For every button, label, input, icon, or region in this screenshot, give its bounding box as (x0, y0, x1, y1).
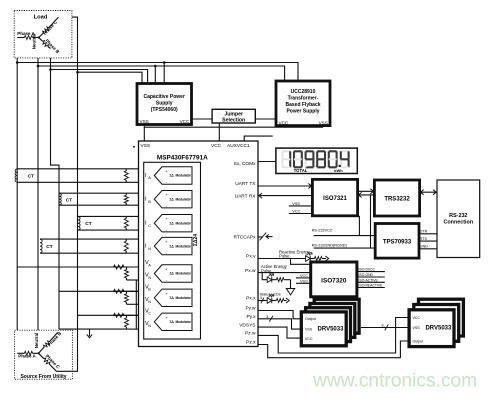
svg-text:Jumper: Jumper (224, 111, 243, 117)
svg-text:(TPS54060): (TPS54060) (151, 107, 178, 113)
svg-text:Modulator: Modulator (176, 197, 192, 201)
svg-text:CT: CT (28, 173, 34, 179)
svg-text:N: N (148, 246, 151, 251)
svg-text:6: 6 (260, 296, 262, 300)
svg-text:RS-232VCC: RS-232VCC (312, 228, 333, 232)
svg-text:VSS: VSS (305, 327, 313, 331)
svg-text:Modulator: Modulator (176, 272, 192, 276)
svg-text:Sx, COMx: Sx, COMx (234, 161, 256, 167)
svg-text:RS-232: RS-232 (449, 213, 467, 219)
svg-text:ΣΔ: ΣΔ (170, 296, 175, 300)
svg-text:CT: CT (85, 221, 91, 227)
svg-text:UART RX: UART RX (235, 193, 257, 199)
svg-text:ΣΔ: ΣΔ (170, 272, 175, 276)
svg-text:ΣΔ: ΣΔ (170, 244, 175, 248)
svg-text:A: A (148, 175, 151, 180)
svg-text:Modulator: Modulator (176, 244, 192, 248)
svg-text:ΣΔ: ΣΔ (170, 174, 175, 178)
svg-text:VSS: VSS (141, 143, 151, 149)
svg-text:ISO7321: ISO7321 (323, 196, 347, 202)
svg-text:B: B (148, 287, 151, 292)
svg-text:VSS: VSS (292, 202, 300, 206)
svg-text:DTR: DTR (420, 230, 428, 234)
svg-text:3,: 3, (266, 315, 269, 319)
svg-text:TOTAL: TOTAL (294, 168, 308, 173)
svg-text:MSP430F67791A: MSP430F67791A (157, 154, 208, 161)
svg-text:Modulator: Modulator (176, 174, 192, 178)
svg-text:Based Flyback: Based Flyback (285, 102, 320, 108)
svg-text:VCC: VCC (305, 337, 313, 341)
svg-text:Connection: Connection (443, 220, 473, 226)
svg-text:GND: GND (420, 245, 428, 249)
svg-text:VCC: VCC (413, 316, 421, 320)
svg-text:Px.v: Px.v (246, 254, 256, 260)
svg-text:RS-232GND(RGND): RS-232GND(RGND) (312, 243, 348, 247)
svg-text:Phase A: Phase A (18, 354, 36, 359)
svg-text:Py.x: Py.x (247, 314, 257, 320)
svg-text:UCC28910: UCC28910 (291, 89, 316, 95)
svg-text:A: A (148, 262, 151, 267)
svg-text:VSS: VSS (413, 326, 421, 330)
svg-text:Neutral: Neutral (34, 333, 39, 349)
svg-text:Power Supply: Power Supply (286, 109, 319, 115)
svg-text:RTCCAPx: RTCCAPx (233, 234, 256, 240)
svg-text:ISO7320: ISO7320 (321, 277, 347, 284)
svg-text:Pz.x: Pz.x (246, 340, 256, 346)
svg-text:Capacitive Power: Capacitive Power (143, 94, 184, 100)
svg-text:Supply: Supply (156, 101, 173, 107)
svg-text:Px.w: Px.w (245, 268, 256, 274)
svg-text:Neutral: Neutral (32, 34, 37, 50)
svg-text:ΣΔ: ΣΔ (170, 197, 175, 201)
svg-text:C: C (148, 311, 151, 316)
svg-text:Modulator: Modulator (176, 296, 192, 300)
svg-text:kWh: kWh (334, 168, 343, 173)
svg-text:AUXVCC1: AUXVCC1 (227, 143, 250, 149)
svg-text:VCC: VCC (180, 119, 190, 124)
svg-text:ΣΔ: ΣΔ (170, 221, 175, 225)
svg-text:Output: Output (305, 317, 316, 321)
svg-text:Px.x: Px.x (246, 296, 256, 302)
svg-text:Selection: Selection (222, 118, 245, 124)
svg-text:CT: CT (66, 198, 72, 204)
svg-text:Pulse: Pulse (279, 254, 290, 259)
svg-text:N: N (148, 275, 151, 280)
svg-text:VCC: VCC (211, 143, 222, 149)
svg-text:www.cntronics.com: www.cntronics.com (312, 370, 477, 391)
svg-text:Transformer-: Transformer- (288, 96, 319, 102)
svg-text:ΣΔ: ΣΔ (170, 320, 175, 324)
svg-text:UART TX: UART TX (235, 181, 256, 187)
svg-text:Modulator: Modulator (176, 320, 192, 324)
svg-text:Modulator: Modulator (176, 221, 192, 225)
svg-text:ΣΔ24: ΣΔ24 (193, 234, 199, 246)
svg-text:3,: 3, (381, 324, 384, 328)
svg-text:VSS: VSS (319, 120, 328, 125)
svg-text:Output: Output (413, 339, 424, 343)
svg-text:C: C (148, 223, 151, 228)
svg-text:VCC: VCC (279, 120, 289, 125)
svg-text:TRS3232: TRS3232 (384, 196, 410, 202)
svg-text:VDSYS: VDSYS (239, 322, 255, 328)
svg-text:N: N (148, 299, 151, 304)
svg-text:TPS70933: TPS70933 (383, 239, 412, 245)
svg-text:DRV5033: DRV5033 (425, 326, 452, 332)
svg-text:VCC: VCC (300, 274, 308, 278)
svg-text:B: B (148, 199, 151, 204)
svg-text:Py.w: Py.w (245, 306, 256, 312)
svg-text:N: N (148, 323, 151, 328)
svg-text:Pz.w: Pz.w (245, 331, 256, 337)
svg-text:VSS: VSS (140, 119, 149, 124)
svg-text:DRV5033: DRV5033 (318, 326, 345, 332)
svg-text:Load: Load (34, 14, 48, 20)
svg-text:Source From Utility: Source From Utility (20, 374, 66, 380)
svg-text:RTS: RTS (420, 237, 428, 241)
svg-text:CT: CT (46, 244, 52, 250)
